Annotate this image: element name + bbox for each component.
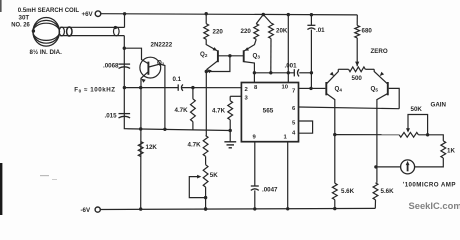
svg-text:8½ IN. DIA.: 8½ IN. DIA.	[30, 49, 63, 56]
svg-text:Q3: Q3	[253, 53, 261, 60]
svg-text:220: 220	[213, 28, 224, 35]
svg-text:Q5: Q5	[371, 86, 379, 93]
svg-text:.015: .015	[105, 113, 118, 120]
svg-text:-6V: -6V	[81, 207, 92, 214]
svg-text:Q2: Q2	[200, 51, 208, 58]
svg-text:.001: .001	[285, 62, 298, 69]
svg-text:20K: 20K	[276, 27, 288, 34]
svg-text:.0068: .0068	[103, 62, 119, 69]
svg-text:500: 500	[352, 75, 363, 82]
svg-text:+6V: +6V	[82, 11, 94, 18]
svg-text:ʹ100MICRO AMP: ʹ100MICRO AMP	[403, 181, 456, 188]
svg-text:ZERO: ZERO	[371, 48, 388, 55]
svg-text:565: 565	[263, 108, 274, 115]
svg-text:.0047: .0047	[262, 186, 278, 193]
svg-text:10: 10	[282, 85, 289, 91]
svg-text:12K: 12K	[146, 144, 158, 151]
svg-text:5K: 5K	[210, 172, 218, 179]
svg-text:5.6K: 5.6K	[381, 188, 395, 195]
svg-text:220: 220	[241, 28, 252, 35]
svg-text:Q4: Q4	[335, 86, 343, 93]
svg-text:4.7K: 4.7K	[188, 142, 202, 149]
svg-text:SeekIC.com: SeekIC.com	[409, 200, 460, 211]
svg-text:30T: 30T	[19, 14, 30, 21]
svg-text:2N2222: 2N2222	[151, 41, 173, 48]
svg-text:NO. 26: NO. 26	[11, 22, 30, 28]
svg-text:Q1: Q1	[157, 59, 165, 66]
svg-text:680: 680	[362, 28, 373, 35]
svg-text:1K: 1K	[447, 147, 455, 154]
svg-text:0.5mH SEARCH COIL: 0.5mH SEARCH COIL	[18, 7, 80, 14]
svg-text:0.1: 0.1	[173, 76, 182, 83]
svg-text:5.6K: 5.6K	[341, 188, 355, 195]
svg-text:.01: .01	[316, 27, 325, 34]
svg-text:F0 ≈ 100kHZ: F0 ≈ 100kHZ	[74, 86, 115, 93]
svg-text:50K: 50K	[411, 106, 423, 113]
svg-text:4.7K: 4.7K	[175, 107, 189, 114]
svg-text:GAIN: GAIN	[431, 102, 447, 109]
svg-text:4.7K: 4.7K	[212, 108, 226, 115]
